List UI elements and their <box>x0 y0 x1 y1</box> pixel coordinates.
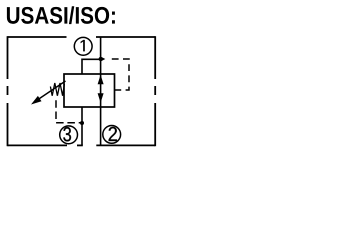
flow arrow down (inside valve) <box>98 93 104 103</box>
port circle 2 <box>103 125 121 143</box>
port label 1 <box>81 40 85 51</box>
valve envelope left edge (solid upper) <box>7 36 9 79</box>
spring (adjustable) on valve left side <box>50 83 64 96</box>
port circle 3 <box>60 126 78 144</box>
title USASI/ISO: <box>7 6 115 24</box>
valve envelope left edge (solid lower) <box>7 103 9 146</box>
valve envelope right edge (solid upper) <box>154 36 156 79</box>
adjustment arrow shaft <box>38 81 66 100</box>
valve envelope bottom edge (right segment) <box>96 144 155 146</box>
pilot drain line (dashed) from spring to port 3 line <box>56 100 82 123</box>
wire elbow from junction to valve box top <box>82 59 101 74</box>
port label 2 <box>109 127 117 141</box>
valve envelope bottom edge (left segment) <box>8 144 68 146</box>
valve body box <box>64 74 115 107</box>
valve envelope bottom edge (middle segment) <box>77 144 83 146</box>
pilot line (dashed) from junction to valve right side <box>112 59 129 90</box>
valve envelope right edge (solid lower) <box>154 103 156 146</box>
port circle 1 <box>74 37 92 55</box>
junction dot with pilot arrow at port 1 line <box>99 57 103 61</box>
adjustment arrow head <box>31 96 42 105</box>
valve envelope top edge (right segment) <box>96 36 155 38</box>
valve envelope left edge (dash) <box>7 86 9 95</box>
main flow line from port 1 through valve to port 2 <box>100 37 102 145</box>
valve envelope top edge (left segment) <box>8 36 67 38</box>
flow arrow up (inside valve) <box>98 75 104 85</box>
valve envelope right edge (dash) <box>154 86 156 95</box>
wire port 3 line from valve box bottom to envelope bottom <box>81 107 83 145</box>
port label 3 <box>63 127 71 141</box>
junction dot on port 3 line <box>80 121 84 125</box>
